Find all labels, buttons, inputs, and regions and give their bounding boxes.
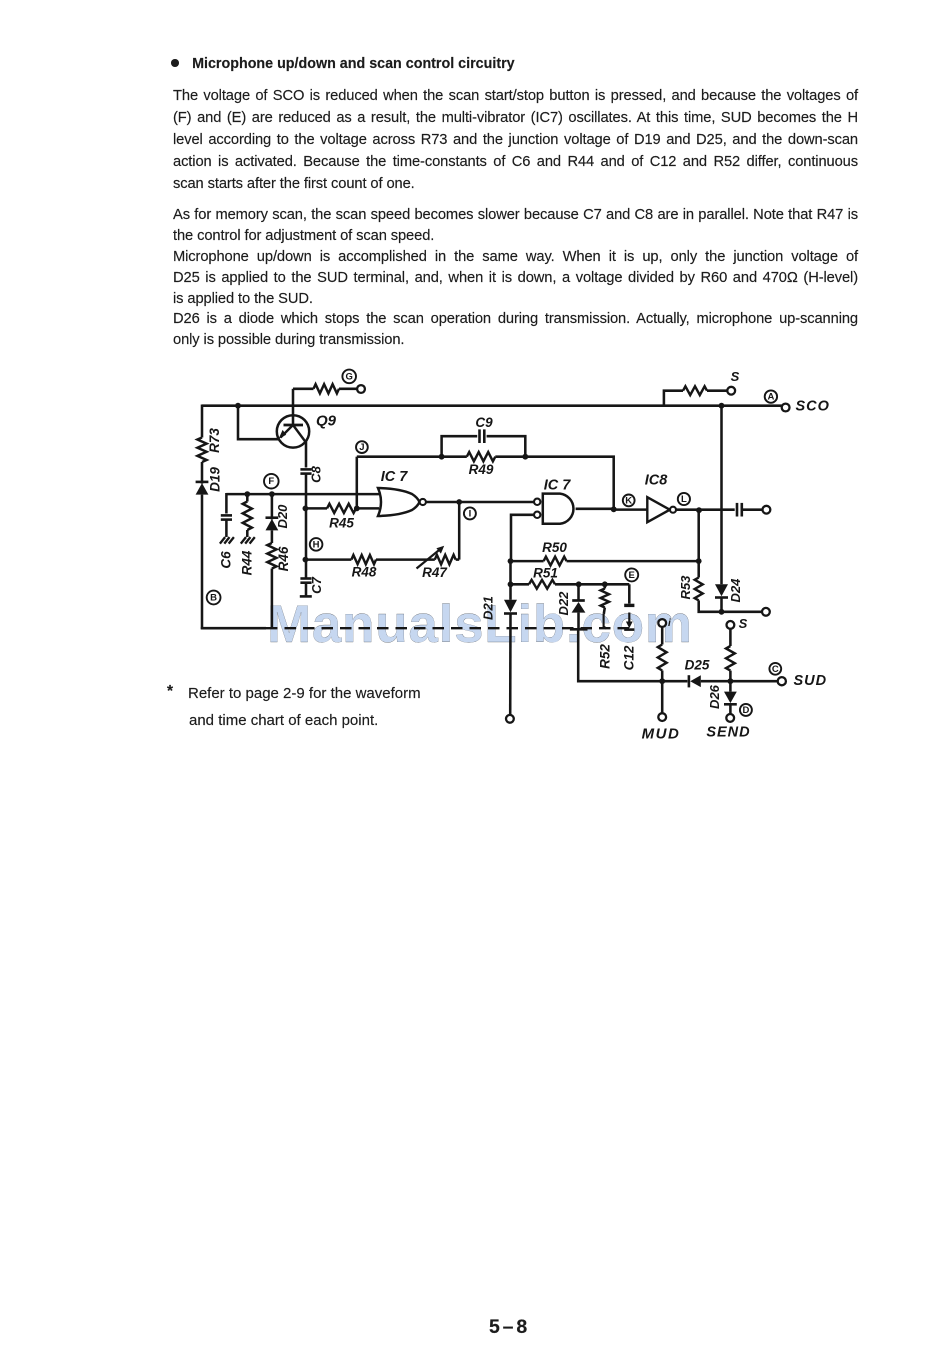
terminal D21 bottom — [506, 715, 514, 723]
svg-text:D25: D25 — [685, 658, 710, 673]
label C6 — [219, 551, 234, 569]
resistor G pull — [314, 384, 340, 393]
wire S branch up — [664, 391, 683, 406]
svg-text:S: S — [731, 369, 740, 384]
svg-text:E: E — [629, 570, 635, 581]
svg-text:R48: R48 — [352, 565, 377, 580]
node B — [207, 591, 221, 605]
label R49 — [469, 462, 494, 477]
label R44 — [239, 550, 254, 575]
label MUD — [642, 725, 681, 742]
svg-text:R73: R73 — [207, 428, 222, 453]
node K — [623, 495, 635, 507]
resistor R52 — [601, 584, 609, 607]
wire D26 lead — [729, 681, 732, 714]
svg-text:D22: D22 — [556, 591, 571, 616]
node F — [264, 474, 279, 489]
capacitor C7 — [300, 579, 311, 583]
wire H to C7 — [305, 560, 308, 579]
wire R47 branch vertical — [458, 502, 461, 560]
wire C9 left leg — [442, 436, 478, 457]
svg-text:R49: R49 — [469, 462, 494, 477]
svg-text:I: I — [469, 508, 472, 519]
svg-text:R53: R53 — [678, 575, 693, 600]
junction dot R51 left — [508, 581, 514, 587]
svg-text:MUD: MUD — [642, 725, 681, 742]
wire G branch — [293, 388, 314, 391]
svg-text:D21: D21 — [480, 596, 495, 620]
junction dot H — [303, 557, 309, 563]
wire R50 line left — [511, 560, 544, 563]
wire S col lower — [729, 671, 732, 682]
resistor R48 — [351, 555, 376, 564]
svg-text:A: A — [767, 392, 774, 403]
svg-text:R45: R45 — [329, 516, 354, 531]
junction dot D22 top — [576, 581, 582, 587]
label C12 — [622, 645, 637, 670]
svg-text:J: J — [359, 442, 364, 453]
wire left rail lower — [201, 495, 204, 630]
terminal SCO — [782, 404, 790, 412]
junction dot S-D26 — [728, 678, 734, 684]
node A — [765, 390, 777, 402]
capacitor output cap — [737, 503, 742, 517]
wire R51 line right — [555, 583, 629, 586]
label S top — [731, 369, 740, 384]
wire I line — [426, 501, 534, 504]
svg-text:D: D — [742, 705, 749, 716]
label R52 — [598, 644, 613, 669]
svg-text:D24: D24 — [728, 578, 743, 603]
ground R44 — [241, 537, 255, 544]
wire C7 end bar — [300, 595, 312, 598]
wire SUD line right — [701, 680, 778, 683]
label R47 — [422, 565, 448, 580]
node D — [740, 704, 752, 716]
svg-text:G: G — [346, 371, 353, 382]
wire C7 lower lead — [305, 583, 308, 597]
svg-text:C7: C7 — [309, 576, 324, 593]
node C — [769, 663, 781, 675]
junction dot F/D20 — [269, 491, 275, 497]
label SCO — [796, 399, 830, 415]
junction dot K — [611, 506, 617, 512]
node J — [356, 441, 368, 453]
label C8 — [308, 465, 323, 482]
label D26 — [707, 684, 722, 709]
diode D22 — [572, 584, 586, 629]
wire D22 base bar — [570, 628, 588, 631]
wire S col upper — [729, 629, 732, 646]
label R53 — [678, 575, 693, 600]
wire D22 drop to SUD line — [578, 629, 662, 681]
node dot top rail / Q9 emitter branch — [235, 403, 241, 409]
wire C8 to R45 junction — [305, 474, 308, 561]
svg-text:R52: R52 — [598, 644, 613, 669]
resistor R51 — [529, 580, 555, 589]
terminal S top — [727, 387, 735, 395]
label tick MUD top — [668, 618, 671, 629]
wire R48 left — [305, 558, 351, 561]
svg-text:C8: C8 — [308, 465, 323, 482]
svg-text:IC 7: IC 7 — [381, 469, 409, 485]
wire MUD lower — [661, 671, 664, 714]
wire MUD upper — [661, 627, 664, 645]
wire K to IC8 — [614, 508, 647, 511]
terminal R53 line — [762, 608, 770, 616]
svg-text:Q9: Q9 — [316, 412, 337, 429]
terminal SEND — [726, 714, 734, 722]
label D25 — [685, 658, 710, 673]
wire D20 to R46 — [271, 530, 274, 543]
wire cap to terminal — [742, 508, 763, 511]
junction dot J branch — [354, 506, 360, 512]
label R45 — [329, 516, 354, 531]
wire R47 to R48 — [376, 558, 435, 561]
svg-text:L: L — [681, 494, 687, 505]
capacitor C6 — [221, 515, 232, 519]
svg-text:i: i — [668, 618, 671, 629]
wire D20 lead — [271, 494, 274, 519]
resistor R50 — [544, 557, 567, 566]
resistor R45 — [327, 504, 356, 513]
junction dot SCO vertical — [719, 403, 725, 409]
wire R53 vertical — [697, 510, 700, 577]
svg-text:F: F — [268, 476, 274, 487]
label IC8 — [645, 473, 669, 489]
label SUD — [794, 673, 828, 689]
diode D21 — [504, 600, 517, 614]
node G — [342, 370, 356, 384]
arrow R47 — [417, 546, 445, 569]
label IC7 gate2 — [544, 477, 572, 493]
svg-text:SCO: SCO — [796, 399, 830, 415]
terminal MUD bottom — [658, 713, 666, 721]
wire NAND lower input — [511, 515, 534, 561]
resistor S top — [683, 386, 707, 395]
resistor R49 — [467, 452, 496, 461]
junction dot C9 left — [439, 454, 445, 460]
wire top rail — [202, 404, 782, 407]
label R73 — [207, 428, 222, 453]
op-gate IC7 NOR U1 — [378, 488, 426, 516]
wire R44 lead — [246, 494, 249, 501]
terminal G — [357, 385, 365, 393]
wire Q9 collector down — [305, 442, 308, 468]
wire bottom bus solid — [201, 627, 266, 630]
svg-text:C12: C12 — [622, 645, 637, 670]
resistor R47 — [435, 555, 456, 565]
svg-text:R51: R51 — [533, 566, 558, 581]
label C7 — [309, 576, 324, 593]
svg-text:SEND: SEND — [706, 724, 750, 740]
wire D21 to terminal — [509, 614, 512, 715]
wire R45 right — [356, 507, 379, 510]
terminal SUD — [778, 677, 786, 685]
wire Q9 base to node G line — [292, 389, 295, 425]
svg-text:IC8: IC8 — [645, 473, 669, 489]
resistor R44 — [243, 502, 252, 531]
wire left rail upper — [201, 405, 204, 438]
svg-text:S: S — [739, 616, 748, 631]
resistor R46 — [267, 543, 276, 569]
svg-text:C9: C9 — [475, 415, 493, 430]
label SEND — [706, 724, 750, 740]
wire L line — [676, 508, 735, 511]
wire F line — [226, 493, 379, 496]
diode D26 — [724, 692, 737, 705]
svg-text:R44: R44 — [239, 550, 254, 575]
wire SUD line mid — [662, 680, 687, 683]
svg-text:R46: R46 — [276, 546, 291, 571]
svg-text:R47: R47 — [422, 565, 448, 580]
svg-text:C: C — [772, 664, 779, 675]
capacitor C12 — [624, 605, 634, 629]
junction dot L branch — [696, 507, 702, 513]
wire R53 bottom — [699, 600, 762, 611]
label D21 — [480, 596, 495, 620]
label S mid — [739, 616, 748, 631]
label Q9 — [316, 412, 337, 429]
resistor MUD — [658, 645, 667, 671]
wire J line left — [357, 455, 467, 458]
wire bottom bus dashed — [266, 627, 635, 629]
wire Q9 emitter to rail — [238, 405, 279, 440]
label R46 — [276, 546, 291, 571]
terminal MUD top — [658, 619, 666, 627]
diode D24 — [715, 584, 728, 597]
label R50 — [542, 540, 567, 555]
label D19 — [208, 467, 223, 492]
node E — [625, 568, 638, 581]
resistor R73 — [197, 438, 206, 463]
svg-text:D19: D19 — [208, 467, 223, 492]
ground C6 — [220, 537, 234, 544]
svg-text:D20: D20 — [275, 504, 290, 529]
junction dot R50 left — [508, 558, 514, 564]
label R51 — [533, 566, 558, 581]
wire R45 left — [305, 507, 327, 510]
wire R46 to bus — [271, 569, 274, 629]
label R48 — [352, 565, 377, 580]
node I — [464, 507, 476, 519]
diode D20 — [266, 518, 279, 531]
wire R44 lower lead — [246, 530, 249, 537]
label IC7 gate1 — [381, 469, 409, 485]
junction dot D24 bottom — [719, 609, 725, 615]
svg-text:SUD: SUD — [794, 673, 828, 689]
label D24 — [728, 578, 743, 603]
junction dot MUD — [659, 678, 665, 684]
svg-text:B: B — [210, 593, 217, 604]
terminal S above SUD — [727, 621, 735, 629]
label D22 — [556, 591, 571, 616]
label D20 — [275, 504, 290, 529]
wire NAND output — [576, 508, 614, 511]
node L — [678, 493, 690, 505]
capacitor C9 — [480, 429, 485, 443]
svg-text:R50: R50 — [542, 540, 567, 555]
resistor S col — [726, 646, 735, 671]
wire D24 vertical — [720, 406, 723, 585]
wire left rail mid — [201, 462, 204, 484]
junction dot R52 top — [602, 581, 608, 587]
wire G branch right — [339, 388, 357, 391]
junction dot R44 — [244, 491, 250, 497]
svg-text:IC 7: IC 7 — [544, 477, 572, 493]
resistor R53 — [695, 578, 703, 601]
wire R51 line left — [511, 583, 530, 586]
wire H line right seg — [456, 558, 460, 561]
diode D25 — [689, 675, 701, 687]
svg-text:D26: D26 — [707, 684, 722, 709]
label C9 — [475, 415, 493, 430]
wire S res to terminal — [707, 389, 727, 392]
op-amp IC8 inverter — [647, 497, 676, 522]
junction dot R53 top — [696, 558, 702, 564]
wire R50 line right — [567, 560, 699, 563]
op-gate IC7 NAND U2 — [534, 494, 573, 524]
wire J vertical — [356, 457, 359, 509]
svg-text:K: K — [625, 495, 632, 506]
wire C12 corner — [628, 584, 631, 603]
node H — [310, 538, 323, 551]
wire J line right — [495, 457, 613, 510]
terminal L line — [763, 506, 771, 514]
junction dot R45 left — [303, 506, 309, 512]
wire C6 lower lead — [225, 520, 228, 537]
wire C9 right leg — [487, 436, 526, 457]
svg-text:H: H — [313, 539, 320, 550]
diode D19 — [196, 482, 209, 495]
capacitor C8 — [300, 469, 311, 473]
wire D21 vertical — [509, 561, 512, 600]
wire C6 lead — [225, 493, 228, 514]
junction dot C9 right — [522, 454, 528, 460]
transistor Q9 — [277, 415, 309, 447]
wire D24 to line — [720, 598, 723, 612]
wire R52 to bus — [604, 608, 607, 629]
junction dot I branch — [456, 499, 462, 505]
svg-text:C6: C6 — [219, 551, 234, 569]
